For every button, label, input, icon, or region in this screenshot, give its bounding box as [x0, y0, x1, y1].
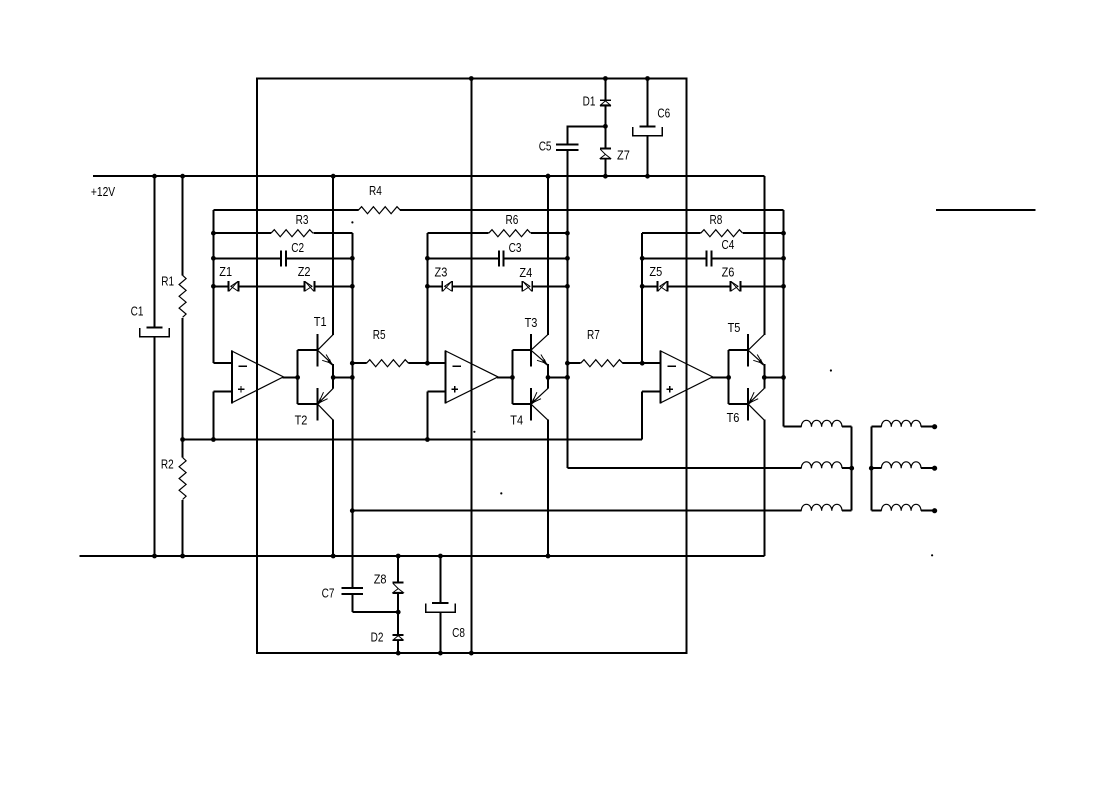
wire emitter node to right vertical stage3 — [764, 376, 783, 378]
resistor R3 — [271, 230, 313, 237]
svg-text:R5: R5 — [373, 327, 386, 342]
diode D1 — [600, 99, 611, 101]
node stage3 right-vertical junctions — [781, 231, 786, 236]
wire outer box top — [256, 78, 688, 80]
wire stage2 feedback left vertical — [426, 233, 428, 363]
node mid-rail plus junctions — [211, 437, 216, 442]
transistor T5 — [747, 334, 749, 366]
wire plus input to mid rail stage2 — [426, 391, 428, 439]
wire C1 bottom lead — [154, 337, 156, 556]
svg-text:Z3: Z3 — [435, 265, 448, 280]
svg-text:T4: T4 — [510, 413, 523, 428]
svg-text:T5: T5 — [728, 320, 741, 335]
svg-text:T2: T2 — [295, 413, 308, 428]
wire R3 row — [213, 232, 271, 234]
wire C1 top lead — [154, 176, 156, 327]
wire plus input to mid rail stage3 — [641, 391, 643, 439]
capacitor C8 — [432, 602, 448, 604]
wire R7 leads — [567, 362, 580, 364]
wire emitters junction stage2 — [547, 364, 549, 389]
capacitor C2 — [280, 250, 282, 266]
wire C5 top lead — [566, 125, 568, 144]
wire op-amp output stage3 — [712, 376, 729, 378]
node stage2 left-vertical junctions — [425, 256, 430, 261]
node output node on right vertical stage2 — [565, 375, 570, 380]
wire C6 top lead — [647, 79, 649, 127]
wire Z8 to D2 — [397, 593, 399, 635]
node stage1 right-vertical junctions — [350, 256, 355, 261]
wire secondary common vertical — [870, 427, 872, 511]
node mid-rail junction R1/R2 — [180, 437, 185, 442]
svg-text:R4: R4 — [369, 183, 382, 198]
node secondary terminal 1 — [932, 424, 937, 429]
node stage1 output-vertical junctions — [350, 361, 355, 366]
svg-text:C6: C6 — [657, 106, 670, 121]
wire stage2 output to primary winding 2 — [567, 467, 801, 469]
wire stage1 output vertical (R3 corner to C7) — [351, 233, 353, 588]
wire C5 bottom lead (to R6 node) — [566, 150, 568, 233]
wire C8 top lead — [439, 556, 441, 603]
node stray dot D — [500, 492, 502, 494]
svg-text:D2: D2 — [371, 630, 384, 645]
node stray dot B — [830, 369, 832, 371]
transistor T1 — [316, 334, 318, 366]
transistor T4 — [530, 388, 532, 421]
svg-text:Z4: Z4 — [519, 265, 532, 280]
zener Z1 — [227, 281, 229, 291]
node secondary common junction — [869, 466, 874, 471]
resistor R8 — [701, 230, 743, 237]
op-amp U3 — [661, 351, 713, 403]
wire C6 to rail — [647, 136, 649, 176]
svg-text:D1: D1 — [583, 94, 596, 109]
wire Z8 top lead — [397, 556, 399, 583]
wire op-amp plus input stage1 — [213, 390, 231, 392]
wire C8 bottom lead — [439, 613, 441, 653]
node T2 collector junction — [331, 554, 336, 559]
resistor R1 — [179, 275, 186, 317]
wire box middle vertical — [470, 79, 472, 654]
node T3 collector rail junction — [546, 174, 551, 179]
svg-text:Z2: Z2 — [298, 264, 311, 279]
svg-text:Z5: Z5 — [649, 264, 662, 279]
resistor R2 — [179, 458, 186, 500]
op-amp U1 — [232, 351, 284, 403]
wire T6 collector to bottom rail — [763, 420, 765, 556]
zener Z4 — [521, 281, 523, 291]
wire op-amp output stage2 — [497, 376, 512, 378]
wire op-amp plus input stage2 — [427, 390, 445, 392]
wire D2 bottom lead — [397, 640, 399, 653]
inductor primary winding 3 — [801, 504, 842, 510]
node bottom-rail junctions left — [152, 554, 157, 559]
node secondary terminal 3 — [932, 508, 937, 513]
inductor secondary winding 3 — [881, 504, 921, 510]
wire stage3 output to primary winding 1 — [784, 426, 802, 428]
transistor T3 — [530, 334, 532, 366]
resistor R4 — [358, 207, 400, 214]
wire op-amp output stage1 — [282, 376, 297, 378]
node output node on right vertical stage3 — [781, 375, 786, 380]
wire R4 right segment — [400, 209, 783, 211]
resistor R7 — [581, 360, 623, 367]
wire secondary winding 1 lead — [871, 426, 881, 428]
svg-text:+12V: +12V — [91, 184, 115, 199]
wire op-amp minus input stage2 — [427, 362, 445, 364]
svg-text:R3: R3 — [296, 212, 309, 227]
wire primary winding 1 to common — [842, 426, 852, 428]
node op-amp output junction stage1 — [295, 375, 300, 380]
op-amp U2 — [446, 351, 498, 403]
wire stage1 output to primary winding 3 — [352, 510, 801, 512]
svg-text:C2: C2 — [291, 240, 304, 255]
wire D1 top lead — [604, 79, 606, 101]
node box-top junctions — [469, 76, 474, 81]
node primary common junction — [849, 466, 854, 471]
svg-text:C4: C4 — [722, 237, 735, 252]
svg-text:C3: C3 — [509, 240, 522, 255]
wire secondary winding 3 lead — [871, 510, 881, 512]
node rail junctions left — [152, 174, 157, 179]
wire C3 row — [427, 257, 499, 259]
node T4 collector junction — [546, 554, 551, 559]
wire zener row stage1 — [213, 285, 228, 287]
wire emitters junction stage3 — [763, 364, 765, 389]
capacitor C1 — [146, 326, 162, 328]
wire zener row stage2 — [427, 285, 442, 287]
wire R8 row — [642, 232, 701, 234]
wire R2 top lead — [182, 440, 184, 458]
capacitor C4 — [706, 250, 708, 266]
wire secondary winding 2 lead — [871, 467, 881, 469]
wire outer box bottom — [256, 652, 688, 654]
wire zener row stage3 — [642, 285, 657, 287]
zener Z6 — [729, 281, 731, 291]
capacitor C7 — [341, 587, 363, 589]
node emitter junction stage2 — [546, 375, 551, 380]
svg-text:C7: C7 — [322, 586, 335, 601]
wire emitter node to right vertical stage2 — [548, 376, 567, 378]
node rail junctions right — [546, 174, 551, 179]
wire secondary winding 2 terminal — [921, 467, 933, 469]
wire op-amp plus input stage3 — [642, 390, 661, 392]
wire isolated segment top right — [936, 209, 1036, 211]
inductor primary winding 1 — [801, 420, 842, 426]
svg-text:Z8: Z8 — [374, 572, 387, 587]
node op-amp output junction stage2 — [510, 375, 515, 380]
svg-text:C1: C1 — [131, 304, 144, 319]
node secondary terminal 2 — [932, 466, 937, 471]
node emitter junction stage3 — [762, 375, 767, 380]
wire base coupling vertical stage3 — [728, 350, 730, 404]
capacitor C5 — [556, 144, 579, 146]
wire mid rail (0V) — [183, 439, 643, 441]
svg-text:C8: C8 — [452, 625, 465, 640]
wire C7 bottom lead — [351, 594, 353, 612]
wire +12V rail — [93, 175, 764, 177]
wire C2 row — [213, 257, 281, 259]
wire stage3 feedback left vertical — [641, 233, 643, 363]
diode D2 — [393, 634, 404, 636]
wire secondary winding 1 terminal — [921, 426, 933, 428]
capacitor C6 — [639, 125, 655, 127]
transistor T6 — [747, 388, 749, 421]
node R7 right junction — [640, 361, 645, 366]
svg-text:R1: R1 — [161, 274, 174, 289]
wire R4 left segment — [213, 209, 358, 211]
wire base coupling vertical stage1 — [297, 350, 299, 404]
wire T4 collector to bottom rail — [547, 420, 549, 556]
svg-text:Z6: Z6 — [722, 265, 735, 280]
wire R6 row — [427, 232, 488, 234]
zener Z2 — [303, 281, 305, 291]
node op-amp output junction stage3 — [726, 375, 731, 380]
wire T1 collector to +12V rail — [332, 176, 334, 335]
wire R1 bottom lead — [182, 318, 184, 440]
node stage1 left-vertical junctions — [211, 231, 216, 236]
svg-text:T3: T3 — [525, 315, 538, 330]
inductor primary winding 2 — [801, 462, 842, 468]
node bottom-rail junctions center — [396, 554, 401, 559]
zener Z5 — [656, 281, 658, 291]
svg-text:Z1: Z1 — [219, 264, 232, 279]
wire node to C5 — [567, 125, 606, 127]
node R5 right junction — [425, 361, 430, 366]
svg-text:R7: R7 — [587, 327, 600, 342]
node stray dot C — [931, 554, 933, 556]
svg-text:R8: R8 — [710, 212, 723, 227]
zener Z7 — [600, 147, 611, 149]
wire T5 collector to +12V rail — [763, 176, 765, 335]
wire outer box right edge — [686, 79, 688, 654]
wire primary winding 2 to common — [842, 467, 852, 469]
resistor R6 — [489, 230, 531, 237]
wire base coupling vertical stage2 — [511, 350, 513, 404]
inductor secondary winding 2 — [881, 462, 921, 468]
wire Z7 to rail — [604, 159, 606, 176]
wire stage1 feedback left vertical — [212, 210, 214, 363]
node stray dot E — [473, 431, 475, 433]
node T1 collector rail junction — [331, 174, 336, 179]
wire R5 leads — [352, 362, 366, 364]
svg-text:R6: R6 — [506, 212, 519, 227]
wire op-amp minus input stage1 — [213, 362, 231, 364]
node emitter junction stage1 — [331, 375, 336, 380]
svg-text:T1: T1 — [314, 314, 327, 329]
svg-text:C5: C5 — [539, 139, 552, 154]
wire emitters junction stage1 — [332, 364, 334, 389]
svg-text:T6: T6 — [727, 410, 740, 425]
wire R2 bottom lead — [182, 500, 184, 556]
wire stage2 output vertical — [566, 233, 568, 468]
node stage2 R5-node junction — [565, 361, 570, 366]
wire T2 collector to bottom rail — [332, 420, 334, 556]
node stage2 right-vertical junctions — [565, 231, 570, 236]
zener Z3 — [441, 281, 443, 291]
transistor T2 — [316, 388, 318, 421]
wire C4 row — [642, 257, 706, 259]
node output node on right vertical stage1 — [350, 375, 355, 380]
node C7/Z8/D2 junction — [396, 610, 401, 615]
wire T3 collector to +12V rail — [547, 176, 549, 335]
wire secondary winding 3 terminal — [921, 510, 933, 512]
wire op-amp minus input stage3 — [642, 362, 661, 364]
svg-text:R2: R2 — [161, 457, 174, 472]
resistor R5 — [367, 360, 409, 367]
wire bottom rail — [80, 555, 765, 557]
inductor secondary winding 1 — [881, 420, 921, 426]
capacitor C3 — [498, 250, 500, 266]
svg-text:Z7: Z7 — [617, 148, 630, 163]
wire D1 to Z7 node — [604, 106, 606, 149]
wire plus input to mid rail stage1 — [212, 391, 214, 439]
node D1/C5/Z7 junction — [603, 124, 608, 129]
wire primary common vertical — [851, 427, 853, 511]
wire R1 top lead — [182, 176, 184, 275]
wire emitter node to right vertical stage1 — [333, 376, 352, 378]
wire stage3 output vertical (R4 corner to winding) — [783, 210, 785, 427]
wire primary winding 3 to common — [842, 510, 852, 512]
wire outer box left edge — [256, 79, 258, 654]
zener Z8 — [393, 582, 404, 584]
node box-bottom junctions — [396, 651, 401, 656]
node stage3 left-vertical junctions — [640, 256, 645, 261]
node stray dot A — [351, 221, 353, 223]
